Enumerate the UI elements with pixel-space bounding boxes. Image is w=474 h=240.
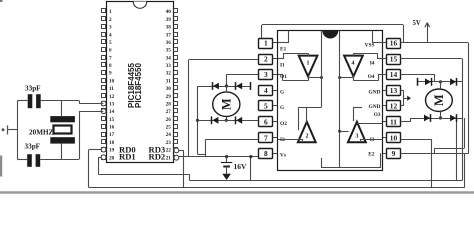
- L293D U2 body: [278, 31, 383, 171]
- wire right motor bottom diode row: [410, 118, 462, 120]
- L293D pin 14 box: [387, 70, 401, 80]
- buffer U2D triangle 4: [344, 56, 363, 77]
- svg-text:18: 18: [109, 140, 115, 146]
- svg-text:16: 16: [109, 125, 115, 131]
- capacitor C1 plates: [28, 94, 33, 108]
- battery stub at left edge: [2, 128, 5, 131]
- svg-text:E1: E1: [280, 47, 287, 53]
- svg-text:32: 32: [166, 71, 172, 77]
- svg-text:E2: E2: [368, 152, 375, 158]
- svg-text:10: 10: [390, 134, 398, 143]
- svg-text:1: 1: [109, 9, 112, 15]
- motor M1: [213, 92, 240, 117]
- svg-text:13: 13: [109, 102, 115, 108]
- svg-text:1: 1: [307, 61, 310, 67]
- wire O1 from L293D pin3 to left motor top node: [227, 74, 259, 76]
- svg-text:GND: GND: [369, 90, 381, 96]
- svg-text:4: 4: [109, 32, 112, 38]
- svg-text:28: 28: [166, 102, 172, 108]
- wire internal bus right: [339, 31, 341, 168]
- svg-text:24: 24: [166, 132, 172, 138]
- wire right motor top diode row: [417, 81, 462, 83]
- buffer U2A triangle 1: [299, 56, 318, 77]
- svg-text:14: 14: [109, 109, 115, 115]
- wire OSC2 net: [17, 159, 27, 161]
- wire E2 net: [401, 153, 469, 155]
- svg-text:15: 15: [390, 55, 398, 64]
- svg-text:I4: I4: [370, 61, 375, 67]
- diode D4: [235, 116, 237, 124]
- node O4 bus: [338, 76, 341, 79]
- wire under-motor connector: [464, 118, 466, 148]
- svg-text:5: 5: [109, 40, 112, 46]
- diode D8: [450, 115, 456, 122]
- buffer U2B wiring: [306, 107, 308, 123]
- wire E1 outer loop to 5V rail: [261, 25, 263, 38]
- wire I3 from pin10 down to bottom: [401, 139, 432, 141]
- svg-text:12: 12: [109, 94, 115, 100]
- wire riser to L293D pin2 I1: [188, 60, 190, 157]
- svg-text:O2: O2: [280, 121, 287, 127]
- svg-text:33pF: 33pF: [25, 143, 41, 151]
- svg-text:3: 3: [356, 134, 359, 140]
- node left motor bottom junctions: [225, 119, 228, 122]
- node 16V tap: [225, 155, 228, 158]
- svg-text:O3: O3: [374, 112, 381, 118]
- buffer U2C wiring: [340, 131, 349, 133]
- wire O3 from pin11 up to bottom row: [401, 121, 411, 123]
- svg-text:PIC18F4550: PIC18F4550: [134, 62, 143, 107]
- svg-text:M: M: [219, 98, 233, 110]
- wire RD2 from PIC pin21 to L293D pin8 Vs line: [177, 156, 259, 158]
- svg-text:21: 21: [166, 155, 172, 161]
- svg-text:8: 8: [264, 149, 268, 158]
- svg-text:22: 22: [166, 148, 172, 154]
- wire VSS to 5V rail: [401, 42, 469, 44]
- wire right motor mid link: [456, 118, 458, 181]
- svg-text:36: 36: [166, 40, 172, 46]
- svg-text:39: 39: [166, 17, 172, 23]
- svg-text:34: 34: [166, 55, 172, 61]
- L293D pin 7 box: [259, 133, 273, 143]
- svg-text:VSS: VSS: [365, 43, 375, 49]
- svg-text:5V: 5V: [413, 20, 421, 27]
- L293D pin 11 box: [387, 117, 401, 127]
- PIC U1 pin stubs left: [102, 9, 106, 13]
- PIC U1 notch: [133, 2, 147, 9]
- wire left motor bottom diode row to L293D pin6 O2: [198, 120, 259, 122]
- wire VSS right drop: [468, 43, 470, 154]
- svg-text:38: 38: [166, 25, 172, 31]
- wire I4 net: [401, 58, 463, 60]
- L293D pin 3 box: [259, 70, 273, 80]
- scan artifact top left corner: [0, 0, 3, 2]
- svg-text:37: 37: [166, 32, 172, 38]
- svg-text:G: G: [280, 90, 285, 96]
- L293D pin 1 box: [259, 39, 273, 49]
- buffer U2D wiring: [373, 42, 383, 44]
- wire RD0 from PIC pin19 down and along outer bottom to right side: [89, 149, 104, 151]
- L293D pin 10 box: [387, 133, 401, 143]
- diode D3: [211, 116, 213, 124]
- node right motor top junction: [439, 80, 442, 83]
- svg-text:19: 19: [109, 148, 115, 154]
- svg-text:4: 4: [352, 61, 355, 67]
- diode D2: [235, 82, 237, 90]
- svg-text:5: 5: [264, 101, 268, 110]
- svg-text:4: 4: [264, 86, 268, 95]
- node right motor bottom junction: [439, 116, 442, 119]
- L293D U2 notch: [322, 31, 338, 39]
- node right motor row end bar: [417, 78, 419, 86]
- L293D pin 5 box: [259, 101, 273, 111]
- svg-text:15: 15: [109, 117, 115, 123]
- L293D pin 9 box: [387, 149, 401, 159]
- buffer U2A wiring: [278, 42, 288, 44]
- svg-text:9: 9: [109, 71, 112, 77]
- wire O4 to right motor top node: [401, 74, 436, 76]
- L293D pin 13 box: [387, 86, 401, 96]
- svg-text:30: 30: [166, 86, 172, 92]
- svg-text:11: 11: [390, 118, 397, 127]
- svg-text:2: 2: [306, 134, 309, 140]
- diode D1: [212, 82, 214, 90]
- buffer U2B triangle 2: [298, 122, 316, 142]
- svg-text:6: 6: [264, 118, 268, 127]
- svg-text:3: 3: [264, 70, 268, 79]
- svg-text:13: 13: [390, 86, 398, 95]
- ground bracket pins 12 13: [401, 90, 404, 92]
- svg-text:31: 31: [166, 78, 172, 84]
- svg-text:8: 8: [109, 63, 112, 69]
- crystal X1 body: [54, 126, 72, 134]
- capacitor C2 plates: [27, 154, 32, 167]
- wire internal bus left: [321, 31, 323, 108]
- svg-text:9: 9: [392, 149, 396, 158]
- svg-text:I1: I1: [280, 63, 285, 69]
- svg-text:3: 3: [109, 25, 112, 31]
- svg-text:I2: I2: [280, 137, 285, 143]
- svg-text:RD1: RD1: [119, 152, 136, 162]
- svg-text:11: 11: [109, 86, 114, 92]
- svg-text:25: 25: [166, 125, 172, 131]
- svg-text:35: 35: [166, 48, 172, 54]
- svg-text:26: 26: [166, 117, 172, 123]
- L293D pin 8 box: [259, 149, 273, 159]
- svg-text:GND: GND: [369, 104, 381, 110]
- L293D pin 12 box: [387, 101, 401, 111]
- wire RD3 from PIC pin22 down to outer bottom wire: [177, 150, 184, 152]
- svg-text:10: 10: [109, 78, 115, 84]
- L293D pin 15 box: [387, 55, 401, 65]
- diode D7: [424, 115, 430, 122]
- svg-text:17: 17: [109, 132, 115, 138]
- svg-text:6: 6: [109, 48, 112, 54]
- svg-text:7: 7: [264, 134, 268, 143]
- L293D pin8 stub: [273, 153, 278, 155]
- L293D pin 4 box: [259, 86, 273, 96]
- wire to L293D pin7 I2: [206, 139, 259, 141]
- L293D pin 2 box: [259, 55, 273, 65]
- scan artifact left edge: [0, 156, 2, 177]
- svg-text:33: 33: [166, 63, 172, 69]
- L293D pin 16 box: [387, 39, 401, 49]
- diode D5: [425, 78, 431, 85]
- battery 16V: [226, 157, 228, 163]
- svg-text:I3: I3: [370, 137, 375, 143]
- buffer U2C triangle 3: [348, 122, 366, 142]
- svg-text:33pF: 33pF: [25, 85, 41, 93]
- wire right motor rail right side: [462, 59, 464, 181]
- motor M2: [426, 89, 453, 111]
- svg-text:20: 20: [109, 155, 115, 161]
- svg-text:16V: 16V: [234, 162, 248, 171]
- node bus T3: [338, 130, 341, 133]
- svg-text:14: 14: [390, 70, 398, 79]
- svg-text:2: 2: [109, 17, 112, 23]
- svg-text:1: 1: [264, 39, 268, 48]
- svg-text:27: 27: [166, 109, 172, 115]
- svg-text:20MHZ: 20MHZ: [29, 129, 54, 137]
- node left motor row end bar: [250, 82, 252, 90]
- svg-text:Vs: Vs: [280, 152, 286, 158]
- crystal X1 top plate: [50, 116, 75, 122]
- PIC U1 pin circles 13 14 19 20 21 22: [101, 101, 106, 106]
- svg-text:40: 40: [166, 9, 172, 15]
- crystal X1 bottom wire: [61, 144, 63, 160]
- crystal X1 bottom plate: [50, 137, 75, 143]
- svg-text:29: 29: [166, 94, 172, 100]
- left rail wire: [17, 101, 19, 160]
- svg-text:23: 23: [166, 140, 172, 146]
- svg-text:2: 2: [264, 55, 268, 64]
- wire OSC1 net: [17, 100, 27, 102]
- wire left motor top diode row: [198, 86, 251, 88]
- PIC U1 pin stubs right: [174, 9, 178, 13]
- node O1 bus: [320, 76, 323, 79]
- svg-text:12: 12: [390, 101, 398, 110]
- svg-text:O4: O4: [368, 74, 375, 80]
- crystal X1 top wire: [61, 101, 63, 116]
- svg-text:M: M: [432, 94, 446, 106]
- svg-text:16: 16: [390, 39, 398, 48]
- wire E2 interior loop: [321, 158, 323, 168]
- node left motor top junction: [225, 84, 228, 87]
- svg-text:7: 7: [109, 55, 112, 61]
- PIC U1 body: [107, 2, 174, 163]
- wire RD1 from PIC pin20 down along bottom to right motor column: [98, 157, 103, 159]
- page rule bottom: [0, 191, 474, 194]
- svg-text:RD2: RD2: [149, 152, 166, 162]
- L293D pin 6 box: [259, 117, 273, 127]
- wire 16V feed down to bottom rail: [250, 157, 252, 181]
- svg-text:G: G: [280, 105, 285, 111]
- diode D6: [450, 78, 456, 85]
- wire left motor supply rail: [197, 86, 199, 154]
